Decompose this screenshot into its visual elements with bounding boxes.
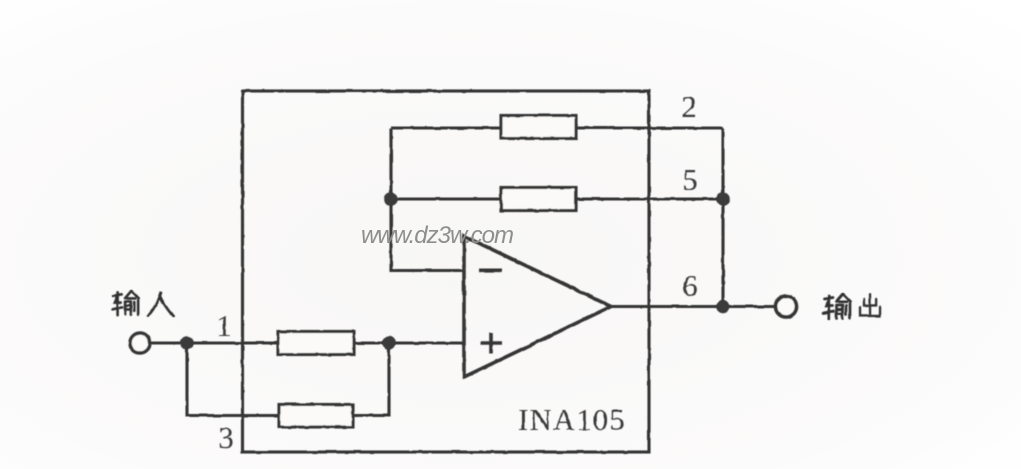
op-amp minus sign xyxy=(479,268,502,272)
resistor R1 (pin1 series) xyxy=(278,332,354,355)
wire pin5 feedback xyxy=(391,197,723,200)
wire pin1 input to + input node xyxy=(150,341,464,344)
output terminal circle xyxy=(776,296,797,317)
svg-text:6: 6 xyxy=(682,268,698,303)
svg-text:1: 1 xyxy=(216,308,232,343)
resistor R4 (pin5 feedback) xyxy=(501,188,576,211)
node: inverting feedback junction xyxy=(384,192,398,206)
wire right vertical pin2-pin6 xyxy=(721,128,724,307)
svg-text:3: 3 xyxy=(218,420,234,455)
svg-text:www.dz3w.com: www.dz3w.com xyxy=(361,222,513,249)
wire pin2 feedback top xyxy=(391,126,723,129)
node: output junction xyxy=(716,300,730,314)
wire minus-input vertical xyxy=(391,128,464,271)
node: input junction xyxy=(180,336,194,350)
wire pin3 branch xyxy=(187,343,389,416)
resistor R2 (pin3 series) xyxy=(279,405,353,428)
input terminal circle xyxy=(130,333,150,353)
label 输入 (input) xyxy=(112,291,173,316)
resistor R3 (pin2 feedback) xyxy=(501,116,576,139)
svg-text:5: 5 xyxy=(682,162,698,197)
wire pin6 output xyxy=(611,305,774,308)
op-amp U1 triangle xyxy=(464,236,611,377)
svg-text:INA105: INA105 xyxy=(518,402,626,437)
node: noninverting input junction xyxy=(382,336,396,350)
op-amp plus sign xyxy=(481,333,503,354)
label 输出 (output) xyxy=(824,294,881,319)
IC body INA105 (outer box) xyxy=(243,91,650,452)
svg-text:2: 2 xyxy=(681,89,697,124)
node: pin5 right junction xyxy=(716,192,730,206)
